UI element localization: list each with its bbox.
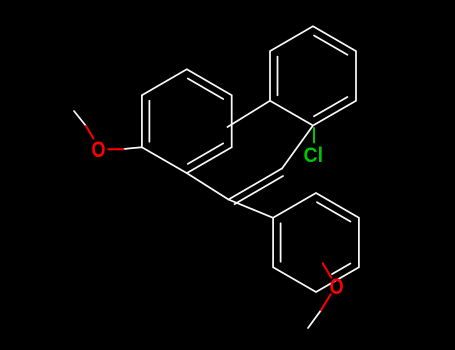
wire: ring1 B to central carbon CA — [187, 173, 229, 199]
benzene ring 1 (left, methoxyphenyl) — [142, 69, 232, 173]
benzene ring 3 (bottom right, methoxyphenyl) — [273, 193, 359, 292]
wire: CA to ring3 UL — [229, 200, 274, 218]
O1-ring bond red half — [108, 148, 123, 150]
svg-text:O: O — [330, 274, 344, 299]
wire: CB up to ring2 bottom vertex — [282, 126, 313, 169]
ether O1 to ring1 bond (white half) — [124, 147, 142, 149]
C=C double bond CA=CB — [229, 168, 284, 204]
ring3 LR-B inner double line red tip near O2 — [323, 263, 332, 277]
svg-text:Cl: Cl — [304, 143, 324, 167]
benzene ring 2 (top right, chlorophenyl) — [270, 26, 356, 125]
svg-text:O: O — [92, 137, 106, 162]
wire: ring2 LL to methyl end — [228, 101, 271, 127]
O1-methyl bond red half — [86, 126, 94, 139]
methyl C of OMe 1 (white half) — [74, 111, 86, 126]
O2-methyl bond red half — [321, 294, 331, 310]
chlorine bond (green) — [313, 128, 315, 143]
methyl C of OMe 2 (white half) — [308, 310, 321, 328]
